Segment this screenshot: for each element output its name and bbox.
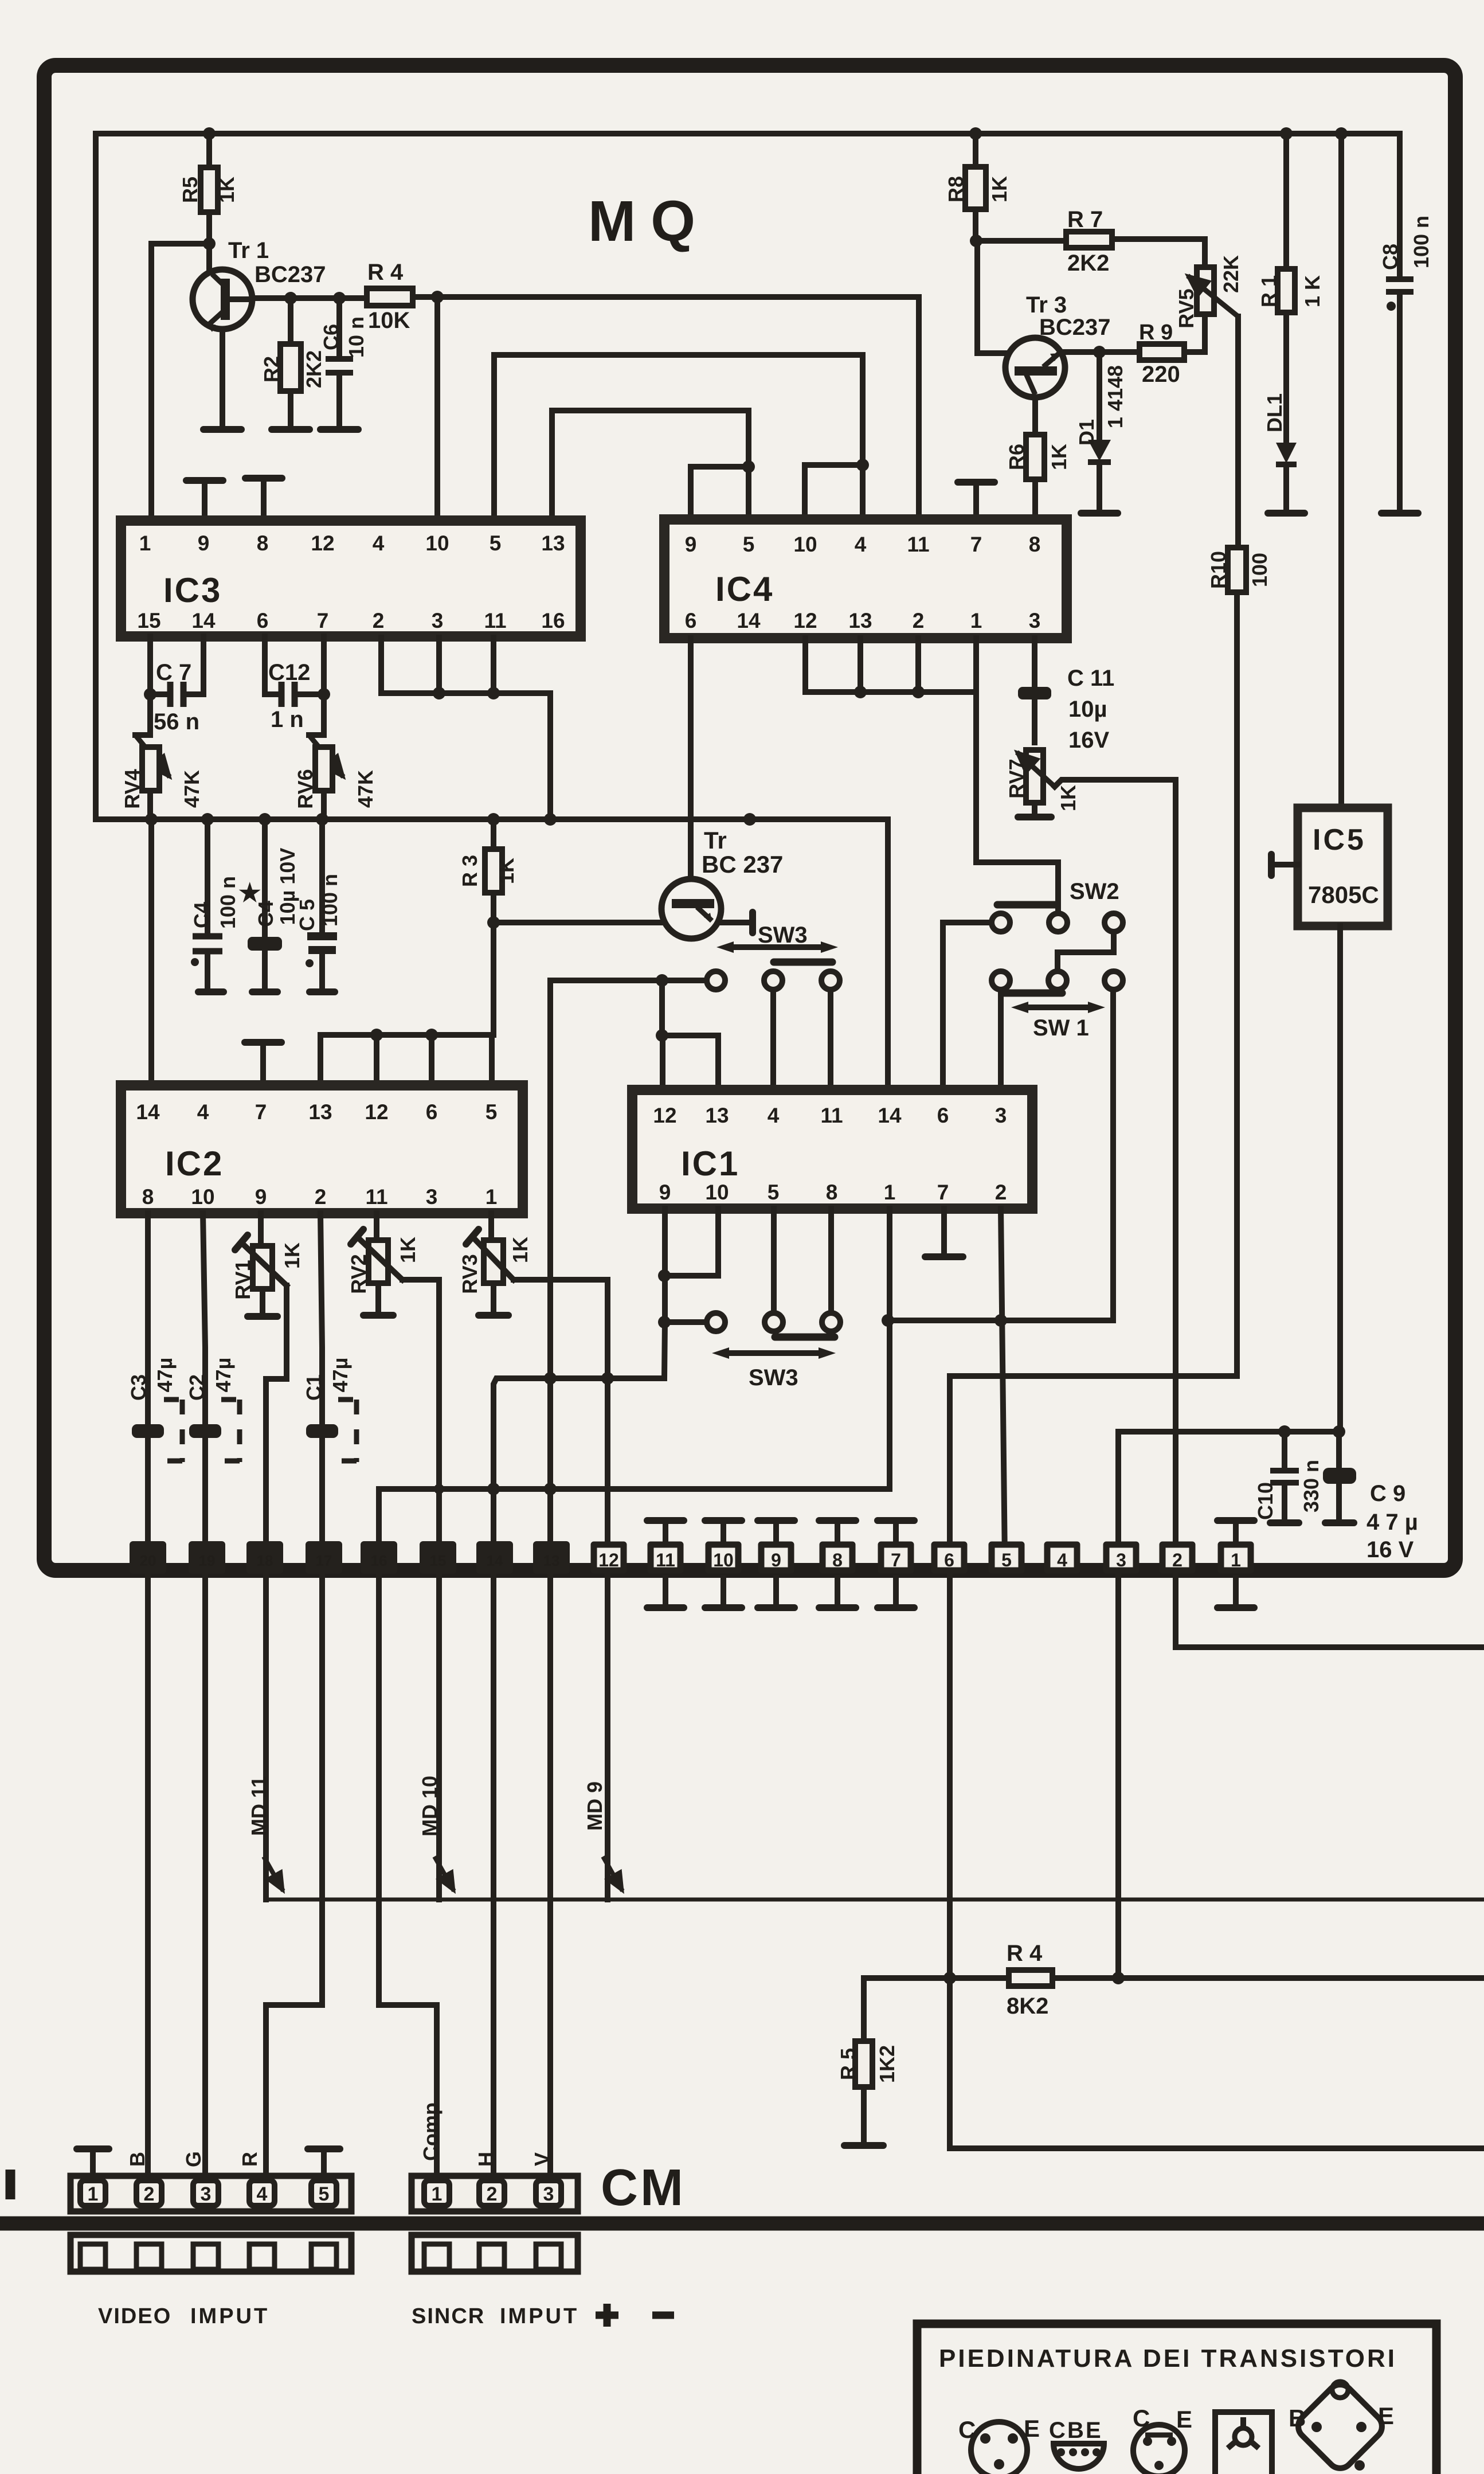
connector tab row on bottom border	[133, 1545, 566, 1570]
wire SW1 right down	[1110, 990, 1116, 1320]
wire tab12 MD9 to bus	[605, 1574, 610, 1900]
svg-text:47K: 47K	[180, 770, 203, 808]
svg-text:BC237: BC237	[1039, 315, 1111, 340]
svg-text:2: 2	[373, 609, 385, 632]
svg-text:R 7: R 7	[1067, 207, 1103, 232]
svg-text:7: 7	[255, 1100, 267, 1124]
svg-text:1K: 1K	[988, 176, 1011, 202]
pinout trimmer box	[1215, 2412, 1272, 2474]
svg-text:3: 3	[1029, 609, 1041, 632]
svg-text:10: 10	[713, 1550, 734, 1570]
wire IC4 pins 12-13-2-1 tie	[805, 638, 976, 692]
wire base line to Tr2	[494, 920, 661, 925]
svg-text:RV5: RV5	[1174, 288, 1198, 328]
wire IC1 pin9-pin10 join and SW3 lower feed	[664, 1209, 718, 1322]
svg-text:D1: D1	[1075, 419, 1098, 445]
svg-text:20: 20	[140, 1552, 156, 1569]
wire IC1 pin14 drop	[885, 819, 891, 1090]
resistor R4 8K2	[864, 1975, 1484, 1981]
capacitor C8 100n	[1397, 134, 1403, 511]
wire to SW2 pole	[976, 692, 1058, 913]
svg-text:12: 12	[653, 1104, 676, 1127]
terminal stub IC3 pin8	[261, 480, 267, 521]
svg-text:1: 1	[88, 2183, 99, 2205]
svg-text:4: 4	[855, 533, 867, 556]
ground R2	[272, 426, 310, 433]
svg-text:6: 6	[937, 1104, 949, 1127]
svg-text:C 7: C 7	[156, 660, 191, 685]
svg-text:3: 3	[995, 1104, 1007, 1127]
wire tab6 to R4 line and out	[950, 1574, 1484, 2148]
resistor R7 2K2	[976, 239, 1205, 241]
svg-text:10µ: 10µ	[1068, 697, 1107, 722]
capacitor C1 47u	[306, 1424, 338, 1438]
svg-text:330 n: 330 n	[1299, 1460, 1323, 1512]
svg-text:47µ: 47µ	[328, 1358, 352, 1393]
svg-text:10: 10	[425, 531, 449, 555]
svg-text:1 n: 1 n	[271, 707, 304, 732]
wire RV3 wiper to tab12	[514, 1280, 608, 1560]
svg-text:56 n: 56 n	[154, 709, 199, 734]
svg-text:IC2: IC2	[165, 1144, 224, 1183]
svg-text:E: E	[1086, 2418, 1101, 2443]
svg-text:47µ: 47µ	[153, 1358, 177, 1393]
connector plug sync	[412, 2235, 578, 2272]
svg-text:SW2: SW2	[1070, 879, 1119, 904]
svg-text:4: 4	[768, 1104, 780, 1127]
svg-text:7: 7	[317, 609, 329, 632]
svg-text:15: 15	[430, 1552, 447, 1569]
svg-text:10 n: 10 n	[344, 316, 368, 358]
svg-text:11: 11	[365, 1185, 387, 1209]
svg-text:MQ: MQ	[588, 189, 710, 253]
svg-text:4 7 µ: 4 7 µ	[1366, 1510, 1418, 1535]
svg-text:B: B	[1067, 2418, 1084, 2443]
wire IC2 pin2 to tab with C1	[320, 1213, 322, 1560]
svg-text:C2: C2	[185, 1374, 209, 1401]
IC3	[121, 521, 581, 636]
wire R10 to tab6	[950, 1376, 1237, 1560]
wire R5 to IC3 pin1	[151, 244, 209, 521]
svg-text:1 4148: 1 4148	[1103, 365, 1127, 428]
svg-text:1K: 1K	[215, 177, 238, 203]
terminal stub IC2 pin7	[260, 1045, 266, 1085]
label I page marker	[6, 2170, 15, 2199]
svg-text:2K2: 2K2	[302, 350, 326, 388]
svg-text:Tr: Tr	[704, 827, 727, 854]
svg-text:4: 4	[1057, 1550, 1067, 1570]
svg-text:47K: 47K	[354, 770, 377, 808]
resistor R4 10K	[367, 288, 413, 306]
svg-text:9: 9	[771, 1550, 781, 1570]
svg-text:10: 10	[191, 1185, 214, 1209]
capacitor C6	[336, 298, 342, 427]
svg-text:1: 1	[970, 609, 982, 632]
svg-text:VIDEO: VIDEO	[98, 2304, 171, 2328]
svg-text:8: 8	[832, 1550, 843, 1570]
svg-text:7: 7	[970, 533, 982, 556]
svg-text:13: 13	[848, 609, 872, 632]
transistor Tr3 BC237	[977, 241, 1007, 353]
svg-text:RV2: RV2	[347, 1254, 370, 1293]
svg-text:IC3: IC3	[163, 571, 222, 609]
svg-text:Comp: Comp	[419, 2102, 443, 2161]
capacitor C7 56n	[150, 636, 203, 694]
wire tab14 below bus	[491, 1489, 496, 1560]
wire tab16 to SINCR pin1 Comp	[379, 1574, 437, 2176]
transistor Tr2 BC237	[688, 638, 694, 879]
svg-text:2: 2	[487, 2183, 498, 2205]
wire net B IC3.5 to IC4.4 IC4.10	[494, 355, 863, 521]
svg-text:2: 2	[144, 2183, 155, 2205]
wire tab3 to R4 line	[1115, 1574, 1121, 1978]
resistor R2	[288, 298, 293, 427]
node R8 bottom junction	[970, 234, 982, 247]
wire SW3 contacts to IC1 pins 4,11	[773, 990, 831, 1090]
wire R4 to IC4 pin11	[413, 297, 919, 519]
svg-text:19: 19	[199, 1552, 216, 1569]
svg-text:C12: C12	[268, 660, 310, 685]
svg-text:2K2: 2K2	[1067, 251, 1109, 276]
svg-text:13: 13	[543, 1552, 560, 1569]
svg-text:R 9: R 9	[1139, 321, 1173, 345]
svg-text:1 K: 1 K	[1301, 275, 1324, 307]
wire RV7 wiper to tab2	[1055, 780, 1176, 1560]
wire RV5 wiper to R10	[1235, 316, 1241, 548]
main board border MQ	[44, 65, 1455, 1570]
svg-text:R10: R10	[1207, 551, 1230, 589]
switch SW3 upper	[550, 978, 707, 983]
wire SW1 left to IC1 pin3	[998, 990, 1004, 1090]
svg-text:5: 5	[1001, 1550, 1012, 1570]
svg-text:R 1: R 1	[1257, 275, 1281, 307]
node R3 base junction	[487, 916, 500, 929]
svg-text:5: 5	[490, 531, 502, 555]
connector plug video	[71, 2235, 351, 2272]
resistor R8	[973, 134, 978, 241]
wire tab15 MD10 to bus	[436, 1574, 442, 1900]
svg-text:4: 4	[373, 531, 385, 555]
svg-text:7: 7	[891, 1550, 901, 1570]
potentiometer RV6 47K	[309, 694, 324, 735]
terminal stub CM pin1	[90, 2151, 96, 2176]
capacitor C5 100n	[319, 819, 325, 988]
wire left rail	[93, 134, 99, 819]
svg-text:IC1: IC1	[681, 1144, 739, 1183]
svg-text:C3: C3	[127, 1374, 150, 1401]
svg-text:14: 14	[136, 1100, 160, 1124]
svg-text:C 11: C 11	[1067, 666, 1114, 691]
capacitor C10 330n	[1282, 1432, 1287, 1521]
wire Tr1 base node	[252, 295, 367, 301]
svg-text:7: 7	[937, 1181, 949, 1204]
svg-text:15: 15	[137, 609, 160, 632]
svg-text:100: 100	[1248, 553, 1271, 587]
capacitor C9 47u 16V	[1336, 1432, 1342, 1521]
wire IC3 pin6 to C12	[265, 636, 279, 694]
svg-text:1: 1	[884, 1181, 896, 1204]
svg-text:SW3: SW3	[749, 1365, 798, 1390]
capacitor C2 47u	[189, 1424, 221, 1438]
ground D1	[1081, 510, 1118, 517]
connector CM sync input	[412, 2176, 578, 2211]
svg-text:1K2: 1K2	[875, 2045, 899, 2083]
svg-text:22K: 22K	[1219, 255, 1243, 293]
svg-text:47µ: 47µ	[212, 1358, 235, 1393]
svg-text:1: 1	[1231, 1550, 1241, 1570]
label minus	[652, 2312, 674, 2319]
svg-text:9: 9	[255, 1185, 267, 1209]
svg-text:16: 16	[541, 609, 565, 632]
svg-text:14: 14	[878, 1104, 902, 1127]
wire tab14 to SINCR pin2 H	[491, 1574, 496, 2176]
edge bar full width	[0, 2217, 1484, 2231]
IC1	[632, 1090, 1032, 1209]
switch SW2	[997, 901, 1055, 909]
svg-text:RV3: RV3	[458, 1254, 481, 1293]
svg-text:1K: 1K	[396, 1237, 420, 1263]
svg-text:9: 9	[685, 533, 697, 556]
svg-text:C: C	[958, 2416, 976, 2443]
potentiometer RV3 1K	[491, 1213, 494, 1313]
svg-text:4: 4	[197, 1100, 209, 1124]
svg-text:1: 1	[139, 531, 151, 555]
ground DL1	[1268, 510, 1305, 517]
ground Tr1 emitter	[203, 426, 241, 433]
svg-text:14: 14	[487, 1552, 503, 1569]
svg-text:IC4: IC4	[715, 570, 774, 608]
terminal stub IC1 pin7	[941, 1209, 947, 1254]
pinout TO18 CE	[958, 2415, 1040, 2474]
terminal stubs above tabs	[647, 1521, 1254, 1548]
svg-text:18: 18	[257, 1552, 273, 1569]
svg-text:RV6: RV6	[293, 769, 317, 808]
wire tab13 to SINCR pin3 V	[547, 1574, 553, 2176]
terminal stub IC4 pin7	[973, 484, 979, 519]
svg-text:MD 9: MD 9	[583, 1781, 606, 1831]
capacitor C11 10u 16V	[1032, 638, 1037, 742]
svg-text:SW 1: SW 1	[1033, 1015, 1089, 1041]
potentiometer RV1 1K	[261, 1213, 263, 1314]
svg-text:3: 3	[426, 1185, 438, 1209]
svg-text:220: 220	[1142, 362, 1180, 387]
transistor Tr1 BC237	[206, 244, 212, 272]
wire tab19 to CM pin3 G	[202, 1574, 208, 2176]
pinout TO18 CE small	[1133, 2405, 1192, 2474]
resistor R5 1K2	[861, 1978, 867, 2143]
svg-text:11: 11	[907, 533, 929, 556]
svg-text:9: 9	[198, 531, 210, 555]
label plus	[596, 2304, 618, 2327]
svg-text:5: 5	[319, 2183, 330, 2205]
capacitor C4* 10u 10V	[262, 819, 268, 988]
svg-text:RV7: RV7	[1005, 759, 1028, 798]
wire ground bus to tab16	[379, 1489, 890, 1560]
svg-text:2: 2	[913, 609, 925, 632]
switch SW1	[992, 971, 1010, 990]
svg-text:16V: 16V	[1068, 728, 1109, 753]
svg-text:C6: C6	[319, 324, 343, 350]
svg-text:E: E	[1378, 2402, 1394, 2429]
svg-text:2: 2	[315, 1185, 327, 1209]
svg-text:IC5: IC5	[1313, 823, 1366, 857]
svg-text:E: E	[1024, 2415, 1040, 2442]
svg-text:5: 5	[485, 1100, 498, 1124]
connector CM video input	[71, 2176, 351, 2211]
svg-text:BC 237: BC 237	[702, 851, 783, 878]
capacitor C12 1n	[281, 682, 295, 707]
svg-text:12: 12	[311, 531, 334, 555]
svg-text:3: 3	[1116, 1550, 1126, 1570]
svg-text:100 n: 100 n	[1409, 216, 1433, 268]
svg-text:13: 13	[541, 531, 565, 555]
svg-text:1: 1	[432, 2183, 443, 2205]
svg-text:13: 13	[308, 1100, 332, 1124]
capacitor C3 47u	[132, 1424, 164, 1438]
svg-text:1K: 1K	[280, 1242, 304, 1269]
wire mid-bus to IC2 pin14	[148, 819, 154, 1085]
svg-text:B: B	[1289, 2405, 1306, 2432]
op-amp IC5 7805C	[1298, 808, 1388, 926]
wire RV2 wiper to tab15	[402, 1280, 439, 1560]
svg-text:14: 14	[737, 609, 761, 632]
svg-text:6: 6	[944, 1550, 954, 1570]
wire R3 node to IC2 pins 13-12-6-5	[320, 923, 494, 1085]
wire tab13 column up	[547, 980, 553, 1560]
node mid-bus dots	[145, 813, 158, 826]
diode DL1	[1276, 443, 1297, 463]
svg-text:1K: 1K	[1047, 444, 1071, 470]
svg-text:3: 3	[432, 609, 444, 632]
svg-text:5: 5	[768, 1181, 780, 1204]
svg-text:3: 3	[543, 2183, 554, 2205]
svg-text:B: B	[126, 2152, 149, 2167]
svg-text:1: 1	[485, 1185, 498, 1209]
wire SW3 pole branch to IC1 pins 12,13	[662, 980, 718, 1090]
svg-text:11: 11	[656, 1550, 675, 1570]
svg-text:C: C	[1133, 2405, 1150, 2432]
svg-text:16 V: 16 V	[1366, 1537, 1414, 1562]
svg-text:H: H	[474, 2152, 498, 2167]
svg-text:MD 10: MD 10	[418, 1776, 441, 1836]
wire R4 node to IC3 pin10	[434, 297, 440, 521]
svg-text:8: 8	[257, 531, 269, 555]
svg-text:RV4: RV4	[120, 769, 144, 808]
potentiometer RV5 22K	[1202, 239, 1208, 267]
svg-text:11: 11	[820, 1104, 843, 1127]
svg-text:100 n: 100 n	[216, 876, 240, 929]
wire RV1 wiper to tab18	[266, 1285, 287, 1560]
wire SW2 left to IC1 pin6	[943, 923, 992, 1090]
wire pin2 tie line	[888, 1318, 1113, 1323]
svg-text:R6: R6	[1005, 444, 1028, 470]
diode D1 4148	[1097, 352, 1102, 511]
svg-text:R 3: R 3	[458, 855, 481, 887]
svg-text:C 5: C 5	[295, 899, 319, 931]
svg-text:RV1: RV1	[231, 1260, 254, 1299]
svg-text:R2: R2	[260, 356, 283, 382]
svg-text:IMPUT: IMPUT	[500, 2304, 579, 2328]
wire tab2 out right	[1176, 1574, 1484, 1647]
wire IC3 pin15 drop	[147, 636, 153, 735]
svg-text:7805C: 7805C	[1308, 881, 1379, 908]
potentiometer RV7 1K	[1026, 750, 1043, 803]
svg-text:5: 5	[743, 533, 755, 556]
svg-text:16: 16	[371, 1552, 387, 1569]
switch SW3 lower	[664, 1319, 707, 1325]
svg-text:17: 17	[316, 1552, 332, 1569]
ground C6	[320, 426, 358, 433]
svg-text:G: G	[182, 2151, 205, 2167]
svg-text:4: 4	[257, 2183, 268, 2205]
svg-text:SINCR: SINCR	[412, 2304, 485, 2328]
svg-text:CM: CM	[601, 2159, 686, 2217]
wire IC1 pin2 to tab5	[1001, 1209, 1005, 1560]
potentiometer RV4 47K	[135, 732, 150, 738]
svg-text:10K: 10K	[368, 308, 410, 333]
wire SW2 right to SW1 pole	[1058, 932, 1114, 971]
terminal stub IC3 pin9	[202, 483, 207, 521]
svg-text:1K: 1K	[508, 1237, 532, 1263]
svg-text:11: 11	[484, 609, 506, 632]
capacitor C4 100n	[205, 819, 210, 988]
svg-text:10: 10	[705, 1181, 729, 1204]
svg-text:6: 6	[685, 609, 697, 632]
svg-text:★: ★	[238, 879, 261, 907]
resistor R10 100	[1234, 592, 1240, 1376]
svg-text:PIEDINATURA DEI TRANSISTOR: PIEDINATURA DEI TRANSISTORI	[939, 2344, 1397, 2373]
svg-text:C1: C1	[302, 1374, 326, 1401]
wire mid bus	[96, 816, 888, 822]
wire IC5 output down	[1337, 926, 1343, 1432]
svg-text:R5: R5	[178, 177, 202, 203]
node D1 junction	[1093, 346, 1106, 358]
svg-text:13: 13	[705, 1104, 729, 1127]
svg-text:9: 9	[659, 1181, 671, 1204]
svg-text:R8: R8	[944, 176, 968, 202]
svg-text:E: E	[1176, 2406, 1192, 2433]
svg-text:DL1: DL1	[1263, 393, 1286, 432]
wire tab20 to CM pin2 B	[145, 1574, 151, 2176]
svg-text:12: 12	[598, 1550, 619, 1570]
svg-text:MD 11: MD 11	[247, 1776, 271, 1836]
node junction dots top bus	[203, 127, 216, 140]
svg-text:Tr 1: Tr 1	[228, 238, 269, 263]
wire SW3 lower contacts to IC1 pins 5,8	[774, 1209, 831, 1313]
svg-text:8K2: 8K2	[1007, 1994, 1048, 2019]
terminal stub IC5 left pin	[1274, 862, 1298, 867]
IC2	[121, 1085, 523, 1213]
wire tab17 to CM pin4 R	[266, 1574, 322, 2176]
pinout TO3 BE	[1289, 2379, 1394, 2473]
svg-text:C10: C10	[1254, 1482, 1277, 1520]
svg-text:1K: 1K	[495, 858, 518, 884]
svg-text:1K: 1K	[1056, 785, 1080, 811]
wire IC3 pins 2-3-11-16 tie	[381, 638, 550, 819]
resistor R6	[1032, 397, 1038, 519]
svg-text:C8: C8	[1379, 244, 1402, 270]
terminal stubs below tabs	[647, 1578, 1254, 1608]
svg-text:6: 6	[257, 609, 269, 632]
svg-text:12: 12	[793, 609, 817, 632]
wire top supply bus	[96, 131, 1400, 136]
svg-text:C4: C4	[190, 902, 213, 928]
svg-text:100 n: 100 n	[318, 874, 342, 927]
box PIEDINATURA DEI TRANSISTORI	[917, 2324, 1436, 2474]
svg-text:8: 8	[142, 1185, 154, 1209]
wire IC1 pin1 down to ground bus	[887, 1209, 892, 1489]
resistor R1	[1283, 134, 1289, 441]
